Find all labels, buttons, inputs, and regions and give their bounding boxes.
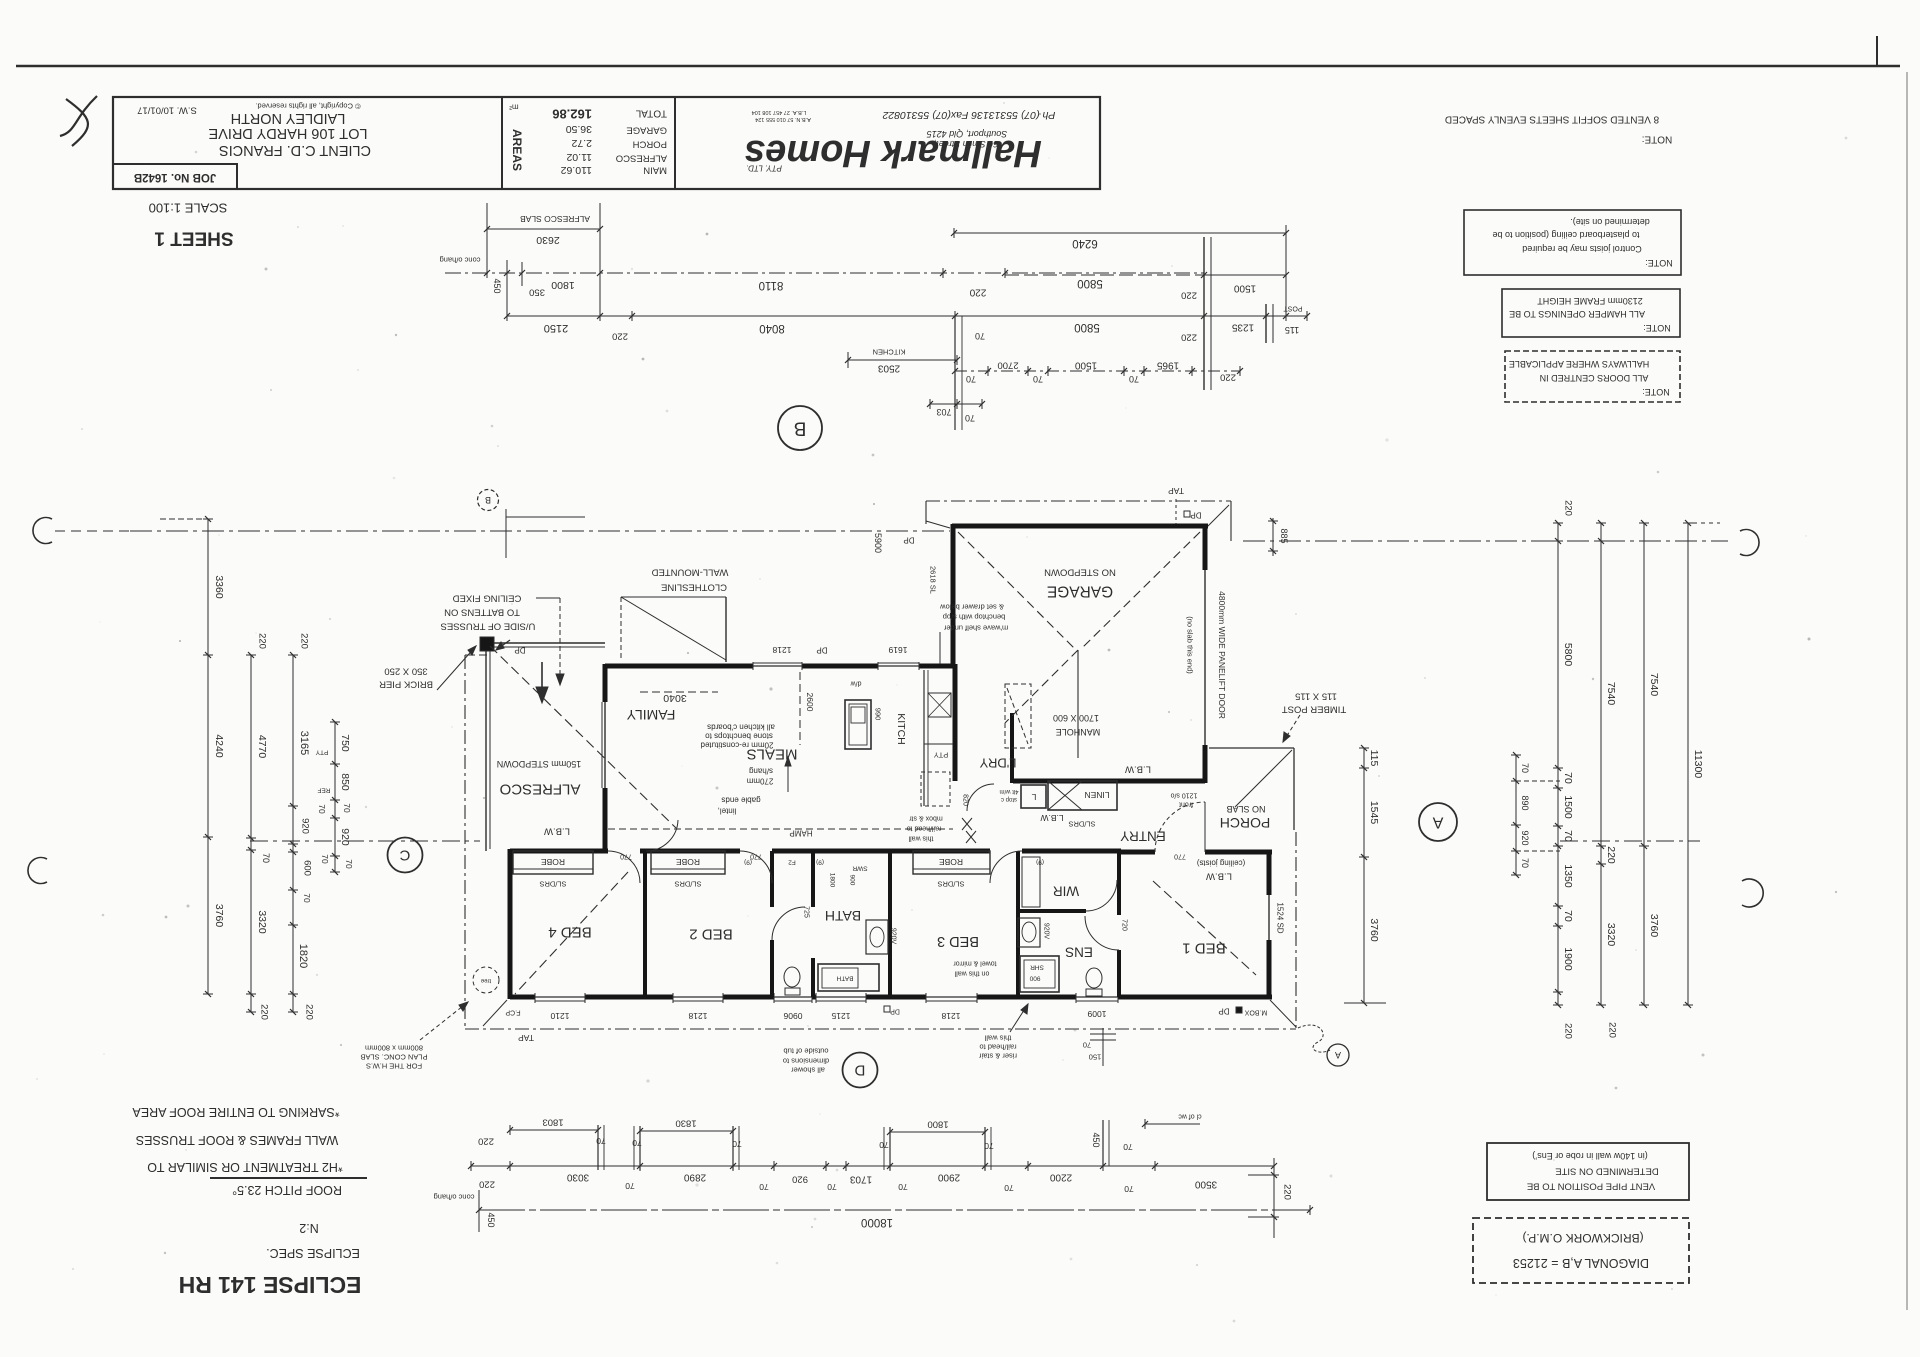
title block divider client/areas <box>501 97 503 189</box>
svg-text:d/w: d/w <box>850 680 862 687</box>
note control joints box <box>1464 210 1681 275</box>
svg-text:8 VENTED SOFFIT SHEETS EVENLY: 8 VENTED SOFFIT SHEETS EVENLY SPACED <box>1445 114 1659 125</box>
svg-text:KITCH: KITCH <box>895 713 907 745</box>
svg-text:A: A <box>1335 1050 1341 1060</box>
dim chain right porch small 70 890 920 70 <box>1515 755 1517 875</box>
svg-text:4770: 4770 <box>256 735 268 759</box>
svg-text:350 X 250: 350 X 250 <box>384 666 427 677</box>
svg-text:70: 70 <box>975 331 985 341</box>
svg-text:70: 70 <box>625 1181 635 1191</box>
svg-text:TAP: TAP <box>1168 486 1184 496</box>
dim row y273 conc o/hang 450 350 1800 8110 220 <box>445 272 1204 274</box>
section bubble B top <box>778 406 822 450</box>
svg-text:70: 70 <box>342 803 352 813</box>
svg-text:TIMBER POST: TIMBER POST <box>1282 704 1347 715</box>
wall house top <box>605 664 753 669</box>
svg-text:ECLIPSE SPEC.: ECLIPSE SPEC. <box>266 1246 360 1260</box>
svg-text:PTY. LTD.: PTY. LTD. <box>746 164 782 173</box>
svg-text:N.2: N.2 <box>299 1221 319 1235</box>
kitchen fridge space dashed <box>921 772 950 806</box>
svg-text:Southport, Qld 4215: Southport, Qld 4215 <box>926 129 1008 139</box>
dim chain left third <box>292 655 294 1012</box>
svg-text:ALL DOORS CENTRED IN: ALL DOORS CENTRED IN <box>1540 373 1649 383</box>
door bed4 <box>608 851 640 883</box>
eaves line alfresco top stub <box>465 654 487 656</box>
note doors centred box <box>1505 351 1680 402</box>
svg-text:benchtop with s/pp: benchtop with s/pp <box>943 613 1006 622</box>
dash stub near 11300 top <box>1693 522 1720 524</box>
svg-text:220: 220 <box>1605 846 1617 864</box>
wall bed1 right <box>1267 852 1272 895</box>
svg-text:20mm re-constituted: 20mm re-constituted <box>701 741 774 750</box>
svg-text:1210 s/o: 1210 s/o <box>1170 792 1197 799</box>
svg-text:885: 885 <box>1279 528 1289 543</box>
svg-text:TOTAL: TOTAL <box>635 108 667 119</box>
section bubble C left <box>388 838 423 873</box>
svg-text:1800: 1800 <box>829 873 836 888</box>
svg-text:cl of wc: cl of wc <box>1178 1113 1202 1120</box>
dim porch 1500 row <box>1204 274 1286 276</box>
eaves corner diagonal bottom-left <box>483 1000 507 1026</box>
title block outer box <box>113 97 1100 189</box>
svg-text:NOTE:: NOTE: <box>1642 387 1670 397</box>
svg-text:920: 920 <box>1520 830 1530 845</box>
svg-text:3760: 3760 <box>1368 918 1380 942</box>
svg-text:70: 70 <box>1123 1142 1133 1152</box>
wall wir/ens divider <box>1018 909 1086 913</box>
wall kitchen right <box>953 664 958 781</box>
svg-text:DP: DP <box>890 1008 900 1015</box>
svg-text:L.B.W: L.B.W <box>1040 813 1063 823</box>
svg-text:NO SLAB: NO SLAB <box>1226 804 1265 814</box>
svg-text:1218: 1218 <box>688 1011 707 1021</box>
handwritten check mark top-left <box>66 99 88 146</box>
svg-text:L'DRY: L'DRY <box>979 756 1016 771</box>
clothesline box <box>725 597 727 662</box>
svg-text:1500: 1500 <box>1562 795 1574 819</box>
svg-text:NOTE:: NOTE: <box>1643 323 1671 333</box>
svg-text:SWR: SWR <box>852 865 867 872</box>
svg-text:HALLWAYS WHERE APPLICABLE: HALLWAYS WHERE APPLICABLE <box>1509 359 1649 369</box>
svg-text:70: 70 <box>344 859 354 869</box>
eaves line left side <box>464 655 466 1029</box>
wall bed3/ens <box>1016 851 1020 997</box>
svg-text:rail/head to: rail/head to <box>907 825 942 832</box>
svg-text:3320: 3320 <box>256 910 268 934</box>
svg-text:*H2 TREATMENT OR SIMILAR TO: *H2 TREATMENT OR SIMILAR TO <box>147 1160 343 1174</box>
svg-text:2130mm FRAME HEIGHT: 2130mm FRAME HEIGHT <box>1537 296 1643 306</box>
window 1218 bed2 <box>673 996 723 998</box>
svg-text:ROBE: ROBE <box>939 857 963 867</box>
svg-text:to plasterboard ceiling (posit: to plasterboard ceiling (position to be <box>1492 230 1639 240</box>
dim chain left second 220 4770 70 3320 220 <box>250 655 252 1012</box>
svg-text:L.B.W: L.B.W <box>544 826 570 837</box>
svg-text:SCALE 1:100: SCALE 1:100 <box>149 201 228 216</box>
page right edge scan line <box>1906 72 1908 1310</box>
svg-text:7540: 7540 <box>1605 682 1617 706</box>
svg-text:990: 990 <box>874 708 883 721</box>
svg-text:WALL-MOUNTED: WALL-MOUNTED <box>652 567 729 578</box>
svg-text:220: 220 <box>1220 372 1236 383</box>
edge marker circle bottom-left <box>28 857 47 883</box>
svg-text:920: 920 <box>339 828 351 846</box>
bath wc <box>784 967 800 987</box>
svg-text:A: A <box>1432 814 1443 831</box>
svg-text:1350: 1350 <box>1562 864 1574 888</box>
svg-text:(BRICKWORK O.M.P.): (BRICKWORK O.M.P.) <box>1522 1231 1643 1245</box>
garage manhole dashed box <box>1005 684 1031 748</box>
door wir <box>1086 880 1117 911</box>
svg-text:HAMP: HAMP <box>789 829 812 838</box>
svg-text:1009: 1009 <box>1087 1009 1106 1019</box>
svg-text:this wall: this wall <box>908 835 933 842</box>
svg-text:PTY: PTY <box>934 751 949 760</box>
svg-text:900: 900 <box>849 875 856 886</box>
wall wing left <box>508 849 513 999</box>
svg-text:gable ends: gable ends <box>721 796 760 805</box>
svg-text:70: 70 <box>1124 1184 1134 1194</box>
svg-text:115 X 115: 115 X 115 <box>1295 691 1337 702</box>
svg-text:1965: 1965 <box>1156 360 1179 371</box>
svg-text:DP: DP <box>1190 511 1201 520</box>
svg-text:8110: 8110 <box>759 279 784 291</box>
top-right corner mark <box>1876 36 1878 66</box>
svg-text:2900: 2900 <box>937 1172 960 1183</box>
svg-text:outside of tub: outside of tub <box>783 1047 828 1056</box>
garage roof diagonal from top-left <box>958 532 1074 648</box>
svg-text:70: 70 <box>261 853 271 863</box>
svg-text:720: 720 <box>1121 919 1128 931</box>
svg-text:ALFRESCO: ALFRESCO <box>616 153 667 164</box>
svg-text:1235: 1235 <box>1231 322 1254 333</box>
svg-text:850: 850 <box>339 773 351 791</box>
svg-text:riser & stair: riser & stair <box>979 1052 1017 1061</box>
eaves line garage top <box>926 500 1231 502</box>
svg-text:BATH: BATH <box>825 908 861 924</box>
roof pitch underline <box>210 1177 367 1179</box>
wall bed4/bed2 <box>643 851 647 997</box>
door family side arc <box>646 820 678 851</box>
wall hall top run4 <box>1022 849 1121 854</box>
eaves line right of porch <box>1295 832 1297 1029</box>
svg-text:SL/DRS: SL/DRS <box>539 880 566 889</box>
svg-text:3040: 3040 <box>663 692 687 704</box>
bath vanity <box>866 920 888 954</box>
svg-text:stop c: stop c <box>1001 796 1017 802</box>
svg-text:150: 150 <box>1089 1053 1102 1062</box>
svg-text:s/hang: s/hang <box>749 767 773 776</box>
svg-text:2700: 2700 <box>997 360 1018 371</box>
grid dash line hall level y841 <box>250 840 480 842</box>
wall hall top run1 <box>510 849 608 854</box>
svg-text:70: 70 <box>302 893 312 903</box>
ceiling note leader <box>536 597 560 599</box>
robe bed2 <box>651 851 725 874</box>
roof hip diagonal bed1 <box>1153 881 1256 975</box>
svg-text:LOT 106 HARDY DRIVE: LOT 106 HARDY DRIVE <box>208 125 367 141</box>
title block divider areas/logo <box>674 97 676 189</box>
wall entry top lbw <box>1013 779 1205 784</box>
svg-text:SL/DRS: SL/DRS <box>937 880 964 889</box>
down arrow alfresco roof <box>541 662 543 697</box>
svg-text:ALFRESCO: ALFRESCO <box>500 781 581 798</box>
dim windows bottom row1 <box>510 1129 598 1131</box>
svg-text:220: 220 <box>299 633 310 649</box>
diagonal dimension box <box>1473 1218 1689 1283</box>
wall garage top <box>952 524 1208 529</box>
dim chain left outer 3360 4240 3760 <box>207 519 209 994</box>
roof hip diagonal bed4 <box>515 872 628 994</box>
eaves corner diagonal bottom-right <box>1270 1000 1296 1027</box>
svg-text:this wall: this wall <box>984 1034 1011 1043</box>
svg-text:1500: 1500 <box>1233 283 1256 294</box>
svg-text:REF: REF <box>317 787 330 794</box>
wall garage right upper <box>1203 524 1208 570</box>
svg-text:6240: 6240 <box>1072 237 1098 249</box>
svg-text:BED 4: BED 4 <box>548 924 591 941</box>
wir shelf <box>1022 857 1040 907</box>
svg-text:FAMILY: FAMILY <box>626 707 675 723</box>
svg-text:D: D <box>854 1062 865 1079</box>
wall wing bottom <box>510 995 535 1000</box>
svg-text:S.W. 10/01/17: S.W. 10/01/17 <box>137 105 197 116</box>
L cupboard box <box>1021 785 1046 808</box>
bed1 sliding door right <box>1268 895 1270 940</box>
kitchen bench strip <box>923 670 925 806</box>
svg-text:all shower: all shower <box>791 1066 825 1075</box>
svg-text:220: 220 <box>257 633 268 649</box>
svg-text:conc o/hang: conc o/hang <box>434 1193 475 1202</box>
svg-text:PORCH: PORCH <box>633 139 667 150</box>
svg-text:162.86: 162.86 <box>552 107 592 122</box>
svg-text:DP: DP <box>514 646 525 655</box>
dim chain right 7540 3760 <box>1643 523 1645 1005</box>
svg-text:all kitchen c'boards: all kitchen c'boards <box>707 723 775 732</box>
svg-text:front: front <box>1179 801 1193 808</box>
grid dash line C level y531 <box>130 530 950 532</box>
svg-text:3760: 3760 <box>1648 914 1660 938</box>
svg-text:890: 890 <box>1520 795 1530 810</box>
svg-text:ECLIPSE 141 RH: ECLIPSE 141 RH <box>179 1272 362 1298</box>
door ens <box>1085 916 1119 950</box>
A bubble small near corner <box>1327 1044 1349 1066</box>
svg-text:(no slab this end): (no slab this end) <box>1186 616 1195 674</box>
ens wc <box>1086 968 1102 988</box>
svg-text:5900: 5900 <box>873 533 883 553</box>
svg-text:1830: 1830 <box>675 1118 696 1129</box>
svg-text:11300: 11300 <box>1692 750 1704 779</box>
svg-text:70: 70 <box>317 804 327 814</box>
svg-text:F.CP: F.CP <box>505 1009 521 1016</box>
svg-text:70: 70 <box>1520 763 1530 773</box>
svg-text:1524 SD: 1524 SD <box>1276 902 1285 933</box>
svg-text:70: 70 <box>1033 374 1043 384</box>
svg-text:220: 220 <box>1181 332 1197 343</box>
svg-text:Ph (07) 55313136 Fax(07) 55: Ph (07) 55313136 Fax(07) 55310822 <box>882 109 1055 121</box>
svg-text:2150: 2150 <box>544 322 568 334</box>
svg-text:920V: 920V <box>890 928 897 945</box>
svg-text:CEILING FIXED: CEILING FIXED <box>453 593 522 604</box>
vent pipe note box <box>1487 1143 1689 1200</box>
edge marker circle C top-left <box>33 518 52 544</box>
svg-text:70: 70 <box>1520 858 1530 868</box>
svg-text:70: 70 <box>320 854 330 864</box>
ens shower <box>1020 956 1059 992</box>
eaves line garage right <box>1230 501 1232 541</box>
svg-text:BED 2: BED 2 <box>689 926 732 943</box>
svg-text:1900: 1900 <box>1562 947 1574 971</box>
svg-text:B: B <box>794 418 807 439</box>
svg-text:220: 220 <box>1607 1022 1618 1038</box>
svg-text:LAIDLEY NORTH: LAIDLEY NORTH <box>231 110 346 126</box>
smoke detector crosses <box>962 818 972 830</box>
svg-text:725: 725 <box>803 906 810 918</box>
svg-text:2890: 2890 <box>683 1172 706 1183</box>
svg-text:2503: 2503 <box>877 363 900 374</box>
svg-text:L: L <box>1031 792 1036 802</box>
wall garage right lower <box>1203 745 1208 783</box>
svg-text:NOTE:: NOTE: <box>1645 258 1673 268</box>
svg-text:© Copyright, all rights reserv: © Copyright, all rights reserved. <box>255 102 360 111</box>
svg-text:2.72: 2.72 <box>571 137 592 149</box>
svg-text:270mm: 270mm <box>746 777 773 786</box>
job number box <box>113 164 237 189</box>
svg-text:MAIN: MAIN <box>643 165 667 176</box>
dim chain right 115 1545 3760 <box>1363 748 1365 1003</box>
svg-text:ENS: ENS <box>1065 945 1093 960</box>
svg-text:920: 920 <box>300 818 311 834</box>
svg-text:SL/DRS: SL/DRS <box>1068 820 1095 829</box>
svg-text:LINEN: LINEN <box>1084 790 1109 800</box>
svg-text:VENT PIPE POSITION TO BE: VENT PIPE POSITION TO BE <box>1527 1181 1655 1192</box>
bathtub <box>818 964 879 991</box>
dim row 6240 garage <box>954 232 1286 234</box>
kitchen island bench <box>845 700 871 749</box>
dim chain left inner 750 850 70 920 70 <box>334 722 336 872</box>
garage panelift door line <box>1204 570 1206 745</box>
svg-text:ROBE: ROBE <box>541 857 565 867</box>
svg-text:2600: 2600 <box>805 693 815 712</box>
svg-text:70: 70 <box>1129 374 1139 384</box>
svg-text:WIR: WIR <box>1053 884 1079 899</box>
wall ens/bed1 <box>1117 852 1121 915</box>
svg-text:BED 3: BED 3 <box>937 933 979 949</box>
svg-text:1500: 1500 <box>1074 360 1097 371</box>
svg-text:703: 703 <box>936 407 951 417</box>
svg-text:150mm STEPDOWN: 150mm STEPDOWN <box>497 759 582 769</box>
wall hall top run3 <box>772 849 990 854</box>
svg-text:SHR: SHR <box>1030 964 1044 971</box>
svg-text:1619: 1619 <box>888 645 907 655</box>
svg-text:SHEET 1: SHEET 1 <box>154 228 234 249</box>
dim 70 150 stub <box>1102 1028 1104 1066</box>
svg-text:11.02: 11.02 <box>566 151 592 163</box>
svg-text:70: 70 <box>898 1182 908 1192</box>
svg-text:36.50: 36.50 <box>566 123 592 135</box>
svg-text:220: 220 <box>969 287 986 298</box>
wall hall top run2 <box>640 849 740 854</box>
svg-text:BRICK PIER: BRICK PIER <box>379 679 433 690</box>
section bubble D bottom <box>843 1053 878 1088</box>
svg-text:1703: 1703 <box>849 1174 872 1185</box>
family glass door <box>604 702 606 788</box>
svg-text:450: 450 <box>1091 1132 1101 1147</box>
garage roof diagonal lower-left stub <box>1005 650 1078 723</box>
window 1009 ens <box>1076 996 1118 998</box>
svg-text:2200: 2200 <box>1049 1172 1072 1183</box>
svg-text:750: 750 <box>339 734 351 752</box>
porch slab edge <box>1209 747 1294 749</box>
section bubble A right <box>1419 803 1457 841</box>
svg-text:220: 220 <box>1181 290 1197 301</box>
wall hall/bath right <box>811 851 815 907</box>
svg-text:C: C <box>399 847 410 864</box>
svg-text:115: 115 <box>1368 750 1380 767</box>
svg-text:on this wall: on this wall <box>954 970 989 977</box>
svg-text:(ceiling joists): (ceiling joists) <box>1196 859 1245 868</box>
svg-text:3165: 3165 <box>298 731 310 755</box>
dim bottom overall 18000 <box>479 1209 1310 1211</box>
door bed3 <box>990 851 1022 883</box>
wall garage left lower (laundry side) <box>1010 713 1014 783</box>
svg-text:800mm x 800mm: 800mm x 800mm <box>365 1044 423 1053</box>
svg-text:ALL HAMPER OPENINGS TO BE: ALL HAMPER OPENINGS TO BE <box>1509 309 1645 319</box>
svg-text:350: 350 <box>529 287 545 298</box>
dim row y371 2700 1500 1965 220 <box>955 370 1240 372</box>
svg-text:conc o/hang: conc o/hang <box>440 256 481 265</box>
svg-text:3030: 3030 <box>566 1172 589 1183</box>
svg-text:70: 70 <box>1562 910 1574 922</box>
svg-text:1210: 1210 <box>550 1011 569 1021</box>
svg-text:1803: 1803 <box>542 1117 563 1128</box>
dim row 703 70 <box>930 403 982 405</box>
wall bed1 top run <box>1119 850 1155 855</box>
svg-text:1218: 1218 <box>941 1011 960 1021</box>
svg-text:1800: 1800 <box>551 279 575 291</box>
edge marker circle C bottom-right <box>1742 879 1763 907</box>
svg-text:POST: POST <box>1283 305 1303 312</box>
svg-text:70: 70 <box>965 413 975 423</box>
svg-text:600: 600 <box>302 860 313 876</box>
alfresco slab edge left <box>485 643 487 851</box>
linen box <box>1048 781 1117 810</box>
eaves line bottom <box>465 1028 1296 1030</box>
porch post extension lines <box>1203 237 1205 390</box>
svg-text:4800mm WIDE PANELIFT DOOR: 4800mm WIDE PANELIFT DOOR <box>1217 591 1227 719</box>
svg-text:mbox & str: mbox & str <box>909 815 943 822</box>
svg-text:(9): (9) <box>1036 859 1044 866</box>
svg-text:Control joists may be required: Control joists may be required <box>1522 244 1642 254</box>
svg-text:220: 220 <box>1282 1184 1293 1200</box>
window top wall 1619 <box>878 665 919 667</box>
svg-text:DP: DP <box>816 646 827 655</box>
dim bottom main row <box>471 1165 1274 1167</box>
svg-text:70: 70 <box>759 1182 769 1192</box>
svg-text:66 Smith Street,: 66 Smith Street, <box>934 139 999 149</box>
garage roof diagonal from top-right <box>1082 532 1200 648</box>
svg-text:(in 140w wall in robe or Ens’): (in 140w wall in robe or Ens’) <box>1532 1151 1648 1161</box>
svg-text:1700 X 600: 1700 X 600 <box>1053 713 1099 723</box>
svg-text:KITCHEN: KITCHEN <box>873 348 906 357</box>
svg-text:3500: 3500 <box>1194 1179 1217 1190</box>
svg-text:3760: 3760 <box>213 904 225 928</box>
svg-text:110.62: 110.62 <box>561 164 592 176</box>
svg-text:FOR THE H.W.S: FOR THE H.W.S <box>366 1062 422 1071</box>
eaves corner diagonal garage right <box>1207 505 1229 527</box>
svg-text:AREAS: AREAS <box>510 129 524 171</box>
dim bottom right 220 vertical <box>1273 1158 1275 1238</box>
svg-text:5800: 5800 <box>1562 643 1574 667</box>
